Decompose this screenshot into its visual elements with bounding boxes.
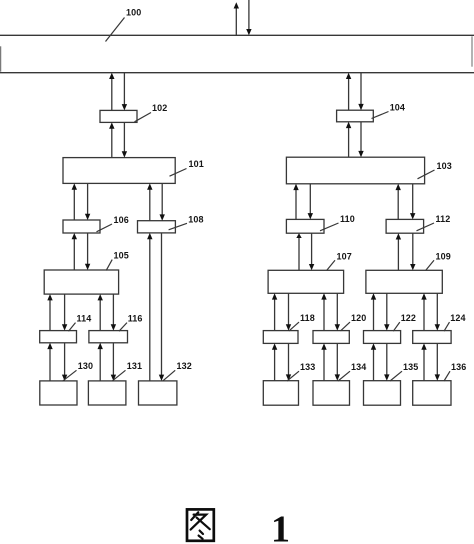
- wire 112-109 down: [410, 233, 415, 270]
- svg-text:133: 133: [300, 362, 315, 372]
- svg-text:112: 112: [436, 214, 451, 224]
- box 135: [364, 381, 401, 406]
- wire 122-135 down: [384, 343, 389, 380]
- svg-text:108: 108: [188, 214, 203, 224]
- svg-text:130: 130: [78, 361, 93, 371]
- label 122: [393, 313, 416, 331]
- box 134: [313, 381, 350, 406]
- label 102: [135, 103, 168, 122]
- wire 109-122 down: [384, 293, 389, 330]
- svg-text:100: 100: [126, 7, 141, 17]
- svg-text:124: 124: [450, 313, 465, 323]
- label 104: [372, 103, 406, 119]
- label 136: [444, 362, 466, 381]
- wire 109-122 up: [371, 293, 376, 330]
- box 105: [44, 270, 118, 294]
- svg-text:132: 132: [177, 361, 192, 371]
- wire 103-110 up: [293, 184, 298, 220]
- box 102: [100, 110, 137, 122]
- label 108: [169, 214, 204, 230]
- label 103: [418, 161, 452, 179]
- wire 101-108 up: [147, 183, 152, 220]
- label 133: [287, 362, 315, 381]
- wire 107-120 up: [321, 293, 326, 330]
- svg-text:106: 106: [114, 215, 129, 225]
- wire 105-116 down: [111, 294, 116, 331]
- wire 105-114 up: [47, 294, 52, 331]
- wire 104-103 up: [346, 122, 351, 157]
- box 108: [138, 221, 176, 233]
- svg-text:114: 114: [77, 313, 92, 323]
- bus 100: [0, 35, 474, 72]
- label 105: [106, 250, 129, 270]
- wire 101-108 down: [160, 183, 165, 220]
- wire 114-130 down: [62, 343, 67, 381]
- box 106: [63, 220, 100, 233]
- box 107: [268, 270, 344, 293]
- wire 104-103 down: [358, 122, 363, 157]
- wire 108-132 up: [147, 233, 152, 381]
- box 109: [366, 270, 442, 293]
- label 120: [341, 313, 367, 331]
- svg-text:110: 110: [340, 214, 355, 224]
- label 100: [106, 7, 142, 41]
- box 136: [413, 381, 451, 406]
- wire 120-134 up: [321, 343, 326, 380]
- wire 116-131 up: [98, 343, 103, 381]
- svg-text:136: 136: [451, 362, 466, 372]
- wire 124-136 down: [435, 343, 440, 380]
- box 124: [413, 331, 451, 344]
- label 106: [97, 215, 129, 232]
- wire 108-132 down: [159, 233, 164, 381]
- label 112: [417, 214, 451, 231]
- box 114: [40, 331, 77, 343]
- box 118: [263, 331, 298, 344]
- label 124: [444, 313, 466, 331]
- box 101: [63, 158, 175, 184]
- label 131: [112, 361, 142, 381]
- wire 116-131 down: [111, 343, 116, 381]
- svg-text:101: 101: [189, 159, 204, 169]
- wire bus top down: [246, 0, 251, 35]
- box 122: [364, 331, 401, 344]
- box 133: [263, 381, 298, 406]
- wire 107-120 down: [335, 293, 340, 330]
- wire 103-110 down: [308, 184, 313, 220]
- wire 107-118 down: [286, 293, 291, 330]
- svg-text:1: 1: [271, 509, 290, 544]
- svg-text:135: 135: [403, 362, 418, 372]
- wire bus-104 up: [346, 73, 351, 111]
- wire 110-107 up: [296, 233, 301, 270]
- box 131: [88, 381, 126, 405]
- wire 110-107 down: [309, 233, 314, 270]
- wire bus-104 down: [358, 73, 363, 111]
- box 103: [286, 157, 424, 184]
- wire 106-105 up: [72, 233, 77, 270]
- wire 124-136 up: [421, 343, 426, 380]
- wire 103-112 up: [396, 184, 401, 220]
- svg-text:104: 104: [390, 103, 405, 113]
- svg-text:107: 107: [337, 251, 352, 261]
- label 116: [119, 313, 143, 331]
- wire bus-102 up: [109, 73, 114, 111]
- svg-text:109: 109: [436, 251, 451, 261]
- wire 105-116 up: [98, 294, 103, 331]
- svg-text:103: 103: [437, 161, 452, 171]
- wire 107-118 up: [272, 293, 277, 330]
- wire 102-101 up: [109, 122, 114, 157]
- label 110: [320, 214, 355, 231]
- wire 102-101 down: [122, 122, 127, 157]
- wire 112-109 up: [396, 233, 401, 270]
- svg-text:122: 122: [401, 313, 416, 323]
- label 118: [289, 313, 315, 331]
- svg-text:105: 105: [114, 250, 129, 260]
- wire 122-135 up: [371, 343, 376, 380]
- label 134: [338, 362, 366, 381]
- box 116: [89, 331, 128, 343]
- box 112: [386, 219, 424, 233]
- wire 109-124 down: [435, 293, 440, 330]
- wire 118-133 down: [286, 343, 291, 380]
- box 130: [40, 381, 77, 405]
- box 132: [139, 381, 177, 405]
- caption number 1: [271, 509, 290, 544]
- label 114: [69, 313, 92, 331]
- label 107: [327, 251, 352, 270]
- svg-text:102: 102: [152, 103, 167, 113]
- wire 114-130 up: [47, 343, 52, 381]
- wire 101-106 down: [85, 183, 90, 220]
- wire bus top up: [234, 2, 239, 35]
- svg-text:116: 116: [128, 313, 143, 323]
- wire 120-134 down: [335, 343, 340, 380]
- svg-text:120: 120: [351, 313, 366, 323]
- wire bus-102 down: [122, 73, 127, 111]
- label 130: [63, 361, 94, 381]
- label 135: [390, 362, 418, 381]
- box 120: [313, 331, 349, 344]
- box 110: [286, 219, 324, 233]
- wire 109-124 up: [421, 293, 426, 330]
- label 132: [163, 361, 192, 381]
- box 104: [337, 110, 374, 122]
- wire 105-114 down: [62, 294, 67, 331]
- wire 106-105 down: [85, 233, 90, 270]
- svg-text:131: 131: [127, 361, 142, 371]
- svg-text:134: 134: [351, 362, 366, 372]
- caption glyph TU (Figure): [187, 509, 214, 540]
- label 101: [170, 159, 204, 176]
- wire 118-133 up: [272, 343, 277, 380]
- wire 101-106 up: [72, 183, 77, 220]
- wire 103-112 down: [410, 184, 415, 220]
- svg-text:118: 118: [300, 313, 315, 323]
- label 109: [426, 251, 451, 270]
